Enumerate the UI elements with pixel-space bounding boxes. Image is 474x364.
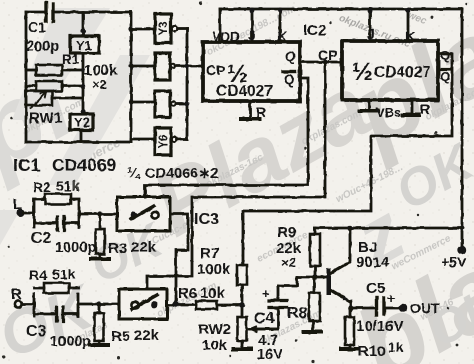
wire SW2 output to R6 (167, 304, 196, 307)
wire R network right leg (77, 294, 80, 316)
junction K1 (278, 8, 283, 13)
junction Y4 output (185, 64, 190, 69)
svg-text:R6: R6 (178, 285, 197, 302)
svg-text:×2: ×2 (92, 77, 107, 92)
svg-text:R: R (256, 104, 266, 120)
resistor R5 (95, 304, 104, 344)
wire R network left leg (33, 294, 36, 316)
wire Q1 to switch SW2 control (147, 62, 325, 289)
svg-text:RW2: RW2 (198, 321, 231, 338)
svg-text:Q: Q (285, 49, 296, 64)
junction on rail at Y4 input (128, 63, 133, 68)
svg-text:200p: 200p (26, 39, 59, 55)
analog switch SW1 box (117, 197, 170, 231)
SW2 left contact (131, 301, 138, 308)
wire +5V right rail (461, 9, 464, 249)
potentiometer RW1 (26, 91, 83, 108)
junction +5V rail to collector rail (460, 226, 465, 231)
svg-text:22k: 22k (131, 239, 157, 256)
wire left rail of oscillator (25, 12, 28, 142)
ground R3 (91, 257, 109, 261)
svg-text:R10: R10 (358, 343, 386, 360)
svg-text:C3: C3 (26, 323, 47, 340)
pin Q1bar (283, 72, 295, 88)
wire R1 pin drop (249, 101, 252, 118)
junction R9 base node (312, 274, 318, 280)
wire R to network (22, 303, 34, 306)
svg-text:VBs: VBs (376, 105, 401, 120)
ground R2 pin (403, 113, 419, 117)
transistor Q1 BJ9014 (327, 262, 352, 308)
flip-flop U2a box (203, 42, 300, 101)
wire Y6 output (177, 138, 187, 141)
wire Y2 bottom drop (80, 130, 83, 142)
junction R6 R7 RW2 node (239, 302, 245, 308)
svg-text:CD4027: CD4027 (216, 83, 273, 100)
svg-text:IC1: IC1 (13, 155, 41, 175)
wire Y1 top drop (82, 12, 85, 36)
junction on rail at Y5 input (128, 99, 133, 104)
wire SW1 output (170, 214, 188, 303)
wire L network to SW1 (79, 213, 117, 216)
svg-text:R4: R4 (29, 267, 47, 283)
wire J2 drop (369, 9, 372, 41)
wire VSS drop (368, 100, 371, 110)
svg-text:R3: R3 (108, 240, 127, 257)
junction Q1 control tap (322, 59, 327, 64)
junction Y5 output (185, 101, 190, 106)
svg-text:100k: 100k (197, 261, 231, 278)
svg-text:Y2: Y2 (74, 115, 90, 130)
capacitor C4 (249, 286, 287, 329)
svg-text:OUT: OUT (410, 300, 440, 316)
svg-text:1000p: 1000p (55, 240, 96, 256)
wire Q2 to R7 (243, 54, 452, 265)
analog switch SW2 box (119, 289, 167, 319)
svg-text:Q: Q (284, 72, 295, 87)
inverter Y5 (155, 91, 176, 117)
wire L to network (23, 212, 34, 215)
wire Q1bar to switch SW1 control (145, 78, 308, 197)
svg-text:C2: C2 (31, 230, 52, 247)
wire Y4 output to CP (175, 65, 203, 68)
wire collector drop (349, 228, 352, 262)
junction R5 tap (96, 301, 101, 306)
ground VSS (360, 109, 378, 113)
svg-text:CD4066∗2: CD4066∗2 (145, 166, 218, 182)
ground R1 pin (241, 117, 259, 121)
junction J1 (250, 8, 255, 13)
svg-text:Y1: Y1 (76, 38, 92, 53)
wire Y4 input stub (131, 65, 155, 68)
resistor R6 (196, 301, 242, 309)
wire base node (297, 276, 327, 279)
resistor R2 (34, 194, 79, 204)
pin Q2bar (439, 69, 450, 84)
svg-text:k: k (72, 177, 80, 193)
svg-text:1k: 1k (388, 339, 404, 355)
ground R8 (304, 330, 321, 334)
svg-text:CD4027: CD4027 (374, 64, 431, 81)
svg-text:1000p: 1000p (50, 334, 91, 350)
svg-text:R5: R5 (111, 328, 130, 345)
wire L network right leg (78, 201, 81, 227)
wire collector supply rail (315, 227, 462, 230)
SW1 lever (131, 206, 154, 219)
wire J1 drop (251, 9, 254, 42)
capacitor C5 (377, 290, 400, 315)
junction on rail at Y3 input (128, 26, 133, 31)
wire VDD drop (219, 9, 222, 42)
wire K2 drop (407, 9, 410, 41)
wire Y6 input stub (131, 138, 155, 141)
SW1 left contact (131, 212, 138, 219)
svg-text:R1: R1 (62, 52, 80, 67)
svg-text:C4: C4 (254, 310, 275, 327)
resistor R1a (26, 65, 85, 75)
inverter Y6 (155, 128, 177, 155)
node L input (13, 196, 24, 217)
wire inverter output rail (186, 29, 189, 140)
node +5V terminal (458, 246, 466, 254)
capacitor C3 (34, 307, 78, 321)
resistor R3 (96, 214, 105, 258)
svg-text:IC3: IC3 (194, 211, 219, 228)
junction SW1 output on R6 wire (173, 301, 179, 307)
svg-text:¼: ¼ (127, 165, 141, 182)
potentiometer RW2 (238, 317, 278, 348)
node R input (11, 286, 22, 308)
resistor R9 (310, 228, 320, 277)
svg-text:C1: C1 (28, 19, 46, 35)
svg-text:Y6: Y6 (158, 134, 170, 148)
junction collector rail tap (347, 225, 353, 231)
node above Y2 (80, 109, 85, 114)
svg-text:22k: 22k (134, 327, 160, 344)
resistor R7 (237, 265, 247, 317)
ground R10 (341, 347, 358, 351)
svg-text:CD4069: CD4069 (52, 155, 116, 175)
wire L network left leg (33, 201, 36, 227)
inverter Y1 (70, 36, 99, 53)
node OUT terminal (399, 304, 407, 312)
SW2 right contact (151, 302, 158, 309)
junction K2 (406, 8, 411, 13)
wire R2 pin drop (411, 100, 414, 114)
resistor R4 (34, 283, 78, 293)
wire emitter to C5 (351, 307, 374, 310)
wire Q1 to CP2 (300, 61, 342, 64)
inverter Y3 (155, 14, 177, 43)
SW2 lever (132, 295, 157, 309)
svg-text:R8: R8 (287, 305, 308, 322)
svg-text:Q: Q (440, 69, 450, 84)
svg-text:+5V: +5V (441, 254, 467, 270)
svg-text:+: + (387, 290, 395, 306)
wire oscillator bottom (26, 141, 131, 144)
svg-text:10/16V: 10/16V (356, 318, 404, 335)
wire inverter input rail (130, 12, 133, 142)
wire R network to SW2 (78, 303, 119, 306)
svg-text:C5: C5 (366, 280, 385, 297)
SW1 right contact (151, 211, 158, 218)
svg-text:+: + (262, 286, 270, 301)
capacitor C1 (46, 3, 131, 21)
wire Y5 output (176, 102, 187, 105)
ground RW2 (233, 347, 251, 351)
junction R3 tap (97, 211, 102, 216)
flip-flop U2b box (342, 41, 438, 100)
svg-text:IC2: IC2 (303, 22, 326, 39)
wire Y5 input stub (131, 101, 155, 104)
wire top supply rail (220, 8, 462, 11)
svg-text:10k: 10k (200, 285, 226, 302)
resistor R8 (309, 277, 320, 331)
svg-text:½: ½ (352, 58, 373, 86)
junction emitter node (348, 305, 354, 311)
ground R5 (90, 343, 108, 347)
svg-text:51k: 51k (52, 266, 76, 282)
svg-text:R: R (420, 101, 430, 117)
inverter Y2 (70, 114, 93, 130)
capacitor C2 (34, 217, 79, 230)
svg-text:×2: ×2 (281, 255, 296, 270)
svg-text:CP: CP (206, 62, 225, 78)
wire Y3 output (177, 27, 187, 30)
resistor R10 (345, 308, 354, 348)
svg-text:R2: R2 (33, 179, 51, 195)
junction J2 (368, 8, 373, 13)
wire top of oscillator to C1 (26, 11, 44, 14)
svg-text:R7: R7 (200, 245, 219, 262)
svg-text:CP: CP (318, 47, 337, 63)
svg-text:R9: R9 (277, 224, 296, 241)
svg-text:Q: Q (440, 48, 450, 63)
node above Y1 (80, 28, 85, 33)
wire Y3 input stub (131, 28, 155, 31)
inverter Y4 (155, 53, 175, 80)
wire Y1 to Y2 vertical (82, 53, 85, 114)
resistor R1b (26, 81, 85, 91)
svg-text:10k: 10k (202, 337, 228, 354)
svg-text:9014: 9014 (356, 254, 390, 271)
svg-text:RW1: RW1 (29, 110, 62, 127)
label 1/2 CD4027 (352, 58, 431, 86)
svg-text:Y3: Y3 (158, 21, 170, 35)
svg-text:16V: 16V (257, 347, 283, 363)
wire K1 drop (279, 9, 282, 42)
wire C4 jog (278, 277, 297, 286)
